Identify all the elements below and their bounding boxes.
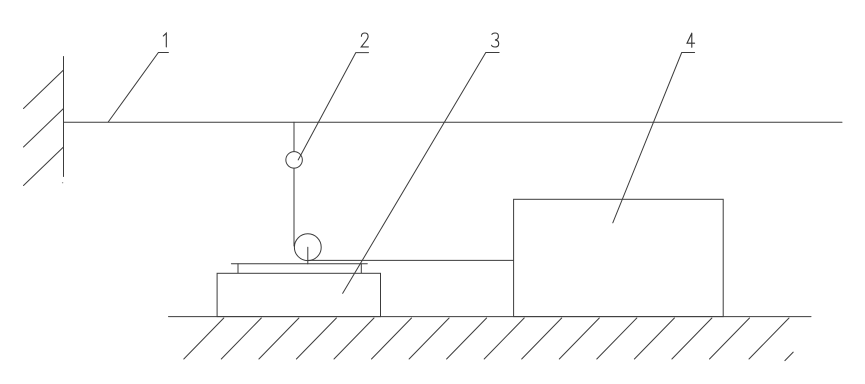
roller axle [307, 247, 309, 264]
ground hatch 11 [559, 318, 599, 359]
ground hatch 12 [597, 318, 637, 359]
ground hatch 9 [484, 318, 524, 359]
label digit 3 [492, 33, 499, 47]
wall (fixed support) vertical line [63, 57, 65, 177]
pulley 2 (small circle on vertical cable) [286, 152, 303, 169]
ground hatch 4 [296, 318, 336, 359]
label digit 1 [163, 33, 166, 47]
ground hatch 2 [221, 318, 261, 359]
ground hatch 1 [184, 318, 224, 359]
wall hatch stroke c [24, 147, 64, 186]
ground hatch 15 [710, 318, 750, 359]
ground hatch 14 [672, 318, 712, 359]
table 3 right leg [360, 264, 362, 274]
horizontal cable from roller to machine box 4 [308, 259, 513, 261]
table 3 left leg [237, 264, 239, 274]
table 3 base box [217, 273, 380, 316]
ground hatch 3 [259, 318, 299, 359]
ground hatch 5 [334, 318, 374, 359]
ground hatch 6 [372, 318, 412, 359]
ground hatch 13 [634, 318, 674, 359]
machine box 4 [514, 199, 724, 316]
ground line [169, 316, 812, 318]
label digit 2 [361, 33, 368, 47]
ground hatch stub 17 [785, 352, 793, 361]
ground hatch 16 [749, 318, 789, 359]
leader line for label 3 [343, 53, 499, 294]
table 3 top plate [231, 263, 367, 265]
vertical cable segment from wire down to roller [293, 122, 295, 246]
ground hatch 8 [447, 318, 487, 359]
roller (large circle) [294, 234, 321, 261]
leader line for label 1 [108, 53, 168, 123]
leader line for label 4 [613, 53, 695, 223]
stray dot under wall [62, 182, 63, 183]
ground hatch 7 [409, 318, 449, 359]
wall hatch stroke a [24, 70, 64, 109]
leader line for label 2 [298, 53, 368, 160]
label digit 4 [687, 33, 695, 47]
wire 1 (horizontal cable from wall) [64, 121, 843, 123]
wall hatch stroke b [24, 109, 64, 148]
ground hatch 10 [522, 318, 562, 359]
